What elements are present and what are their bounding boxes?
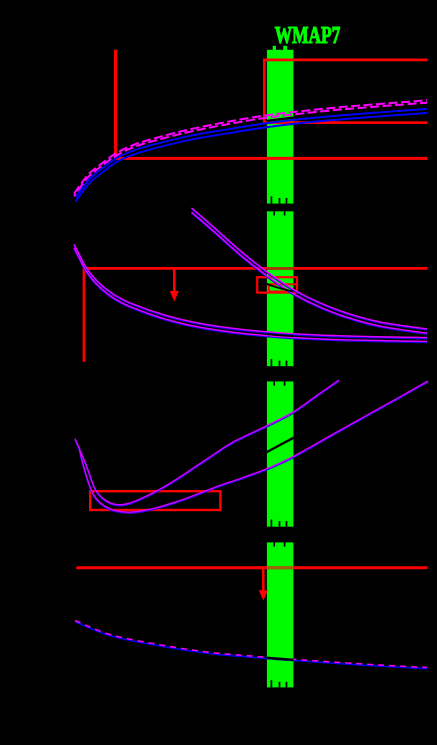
svg-text:WMAP7: WMAP7	[275, 23, 341, 49]
